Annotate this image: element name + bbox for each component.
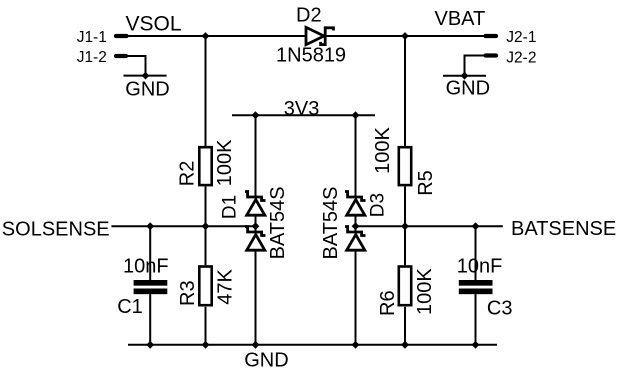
capacitor C3 xyxy=(459,280,493,294)
node B: VBAT/R5 junction xyxy=(401,32,409,40)
svg-text:GND: GND xyxy=(125,78,169,100)
wire: R5 to node D xyxy=(404,186,406,226)
svg-text:VSOL: VSOL xyxy=(126,13,182,36)
svg-text:R6: R6 xyxy=(377,290,399,316)
node: BATSENSE/C3 xyxy=(472,222,480,230)
wire: 3V3 to D1 cathode xyxy=(255,115,257,197)
svg-text:D3: D3 xyxy=(367,193,388,217)
node: D1 center tap xyxy=(252,222,260,230)
svg-text:J1-1: J1-1 xyxy=(77,29,107,46)
svg-text:R2: R2 xyxy=(177,161,199,187)
node: SOLSENSE/C1 xyxy=(146,222,154,230)
svg-text:D1: D1 xyxy=(220,195,241,219)
svg-text:1N5819: 1N5819 xyxy=(276,44,346,66)
wire J1-2 to ground xyxy=(128,56,146,76)
svg-text:J2-2: J2-2 xyxy=(506,49,536,66)
svg-text:C3: C3 xyxy=(487,298,513,320)
svg-text:GND: GND xyxy=(446,77,490,99)
wire VSOL: J1-1 to node A xyxy=(128,35,206,37)
resistor R6 xyxy=(399,267,411,306)
wire: R6 to GND rail xyxy=(404,307,406,345)
resistor R3 xyxy=(199,267,211,306)
node: R6/GND xyxy=(401,341,409,349)
ground symbol (left) xyxy=(124,75,167,77)
svg-text:100K: 100K xyxy=(214,139,236,186)
wire: C1 bottom to GND rail xyxy=(149,294,151,345)
wire: node C down to R3 xyxy=(205,226,207,265)
svg-text:BATSENSE: BATSENSE xyxy=(511,218,616,240)
svg-text:10nF: 10nF xyxy=(457,256,503,278)
wire J2-2 to ground xyxy=(465,56,485,76)
svg-text:BAT54S: BAT54S xyxy=(320,187,342,260)
svg-text:47K: 47K xyxy=(215,268,237,304)
connector pin J2-2 xyxy=(486,53,497,57)
wire: D1 lower anode to GND rail xyxy=(255,251,257,345)
wire: C3 top xyxy=(475,226,477,280)
wire: C3 bottom to GND rail xyxy=(475,294,477,345)
svg-text:R5: R5 xyxy=(415,170,437,196)
connector pin J1-2 xyxy=(116,54,126,58)
wire: D3 lower anode to GND rail xyxy=(355,251,357,345)
svg-text:D2: D2 xyxy=(296,5,322,27)
svg-text:GND: GND xyxy=(244,350,288,372)
svg-text:J1-2: J1-2 xyxy=(77,49,107,66)
svg-text:BAT54S: BAT54S xyxy=(267,186,289,259)
node C: SOLSENSE/R2/R3 xyxy=(202,222,210,230)
svg-text:3V3: 3V3 xyxy=(284,98,320,120)
wire: R2 to node C xyxy=(205,186,207,226)
connector pin J1-1 xyxy=(116,34,127,38)
wire: D1 anode to node C2 xyxy=(255,216,257,232)
svg-text:100K: 100K xyxy=(372,127,394,174)
diode D3 upper (BAT54S) xyxy=(345,192,366,216)
wire: node A down to R2 xyxy=(205,36,207,146)
wire: D3 anode to node D2m xyxy=(355,216,357,232)
wire VSOL: node A to D2 anode xyxy=(206,35,306,37)
diode D3 lower (BAT54S) xyxy=(345,227,366,251)
ground symbol (right) xyxy=(443,75,486,77)
ground rail wire xyxy=(128,344,497,346)
node: D3/GND xyxy=(352,341,360,349)
wire VBAT: D2 cathode to node B xyxy=(327,35,406,37)
diode D1 upper (BAT54S) xyxy=(245,192,266,216)
capacitor C1 xyxy=(134,280,168,294)
svg-text:J2-1: J2-1 xyxy=(506,29,536,46)
svg-text:100K: 100K xyxy=(414,268,436,315)
node: C3/GND xyxy=(472,341,480,349)
node D: BATSENSE/R5/R6 xyxy=(401,222,409,230)
wire BATSENSE xyxy=(356,225,503,227)
svg-text:10nF: 10nF xyxy=(123,256,169,278)
node 3V3/D3 xyxy=(352,111,360,119)
wire: node B down to R5 xyxy=(404,36,406,146)
node 3V3/D1 xyxy=(252,111,260,119)
diode D1 lower (BAT54S) xyxy=(245,227,266,251)
net 3V3 wire xyxy=(232,114,375,116)
svg-text:SOLSENSE: SOLSENSE xyxy=(2,219,110,241)
diode D2 (Schottky) xyxy=(306,27,334,44)
connector pin J2-1 xyxy=(486,34,497,38)
wire: node D down to R6 xyxy=(404,226,406,265)
wire SOLSENSE xyxy=(111,225,255,227)
resistor R2 xyxy=(199,147,211,185)
node A: VSOL/R2 junction xyxy=(202,32,210,40)
svg-text:R3: R3 xyxy=(177,280,199,306)
wire: 3V3 to D3 cathode xyxy=(355,115,357,197)
wire: C1 top xyxy=(149,226,151,280)
node: D1/GND xyxy=(252,341,260,349)
node: D3 center tap xyxy=(352,222,360,230)
node: R3/GND xyxy=(202,341,210,349)
svg-text:VBAT: VBAT xyxy=(435,8,486,30)
svg-text:C1: C1 xyxy=(117,296,143,318)
resistor R5 xyxy=(399,147,411,185)
wire VBAT: node B to J2-1 xyxy=(405,35,485,37)
node: C1/GND xyxy=(146,341,154,349)
wire: R3 to GND rail xyxy=(205,307,207,345)
